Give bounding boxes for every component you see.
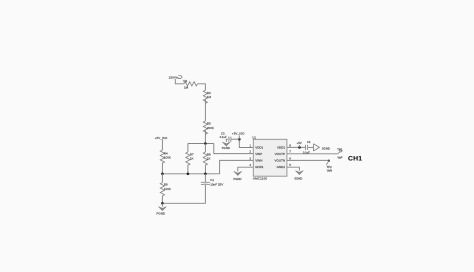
wire pin5 GND2 <box>287 167 300 170</box>
wire <box>175 79 184 84</box>
svg-text:PGND: PGND <box>156 212 166 216</box>
resistor R8 <box>203 144 211 174</box>
IC U1 AMC1100 <box>252 136 287 181</box>
svg-text:100K: 100K <box>164 156 171 160</box>
port 150Vin <box>169 76 182 80</box>
wire pin1 VDD1 <box>239 139 253 147</box>
svg-text:GND2: GND2 <box>277 165 286 169</box>
capacitor C3 <box>220 132 240 142</box>
svg-text:VINN: VINN <box>255 158 262 162</box>
wire <box>187 144 189 153</box>
wire pin8 VDD2 <box>287 146 305 148</box>
svg-text:C1: C1 <box>210 178 214 182</box>
power +5V_ISO (at U1) <box>232 132 245 140</box>
ground PGND (at C3) <box>222 142 231 150</box>
svg-text:1M: 1M <box>207 95 212 99</box>
svg-text:CH1: CH1 <box>348 156 362 163</box>
svg-text:VDD2: VDD2 <box>277 146 285 150</box>
wire <box>161 163 163 174</box>
resistor R3 <box>203 90 211 103</box>
svg-text:200K: 200K <box>207 126 214 130</box>
svg-text:PGND: PGND <box>233 177 241 181</box>
ground PGND (bottom left) <box>156 203 166 215</box>
wire pin6 VOUTN <box>287 159 329 161</box>
junction <box>238 138 241 141</box>
svg-text:SGND: SGND <box>322 147 330 151</box>
ground SGND (at C2, right-pointing) <box>314 144 330 151</box>
junction <box>161 202 164 205</box>
svg-text:R2: R2 <box>183 79 187 83</box>
test point TP2 <box>326 160 332 173</box>
wire pin4 GND1 <box>238 167 254 171</box>
wire <box>204 99 206 121</box>
svg-text:GND1: GND1 <box>255 165 264 169</box>
wire <box>197 84 205 90</box>
svg-text:+5V_ISO: +5V_ISO <box>232 132 245 136</box>
svg-text:150Vin: 150Vin <box>169 76 179 80</box>
junction <box>187 173 190 176</box>
node VINN bus <box>162 160 253 173</box>
svg-text:1K: 1K <box>190 157 194 161</box>
svg-text:VDD1: VDD1 <box>255 146 263 150</box>
svg-text:C2: C2 <box>307 140 311 144</box>
svg-text:VINP: VINP <box>255 152 262 156</box>
svg-text:TP1: TP1 <box>337 147 343 151</box>
ground SGND (pin 5) <box>294 171 303 181</box>
svg-text:VOUTP: VOUTP <box>275 152 285 156</box>
svg-text:1K: 1K <box>207 157 211 161</box>
svg-text:+5V_ISO: +5V_ISO <box>155 136 168 140</box>
resistor R6 <box>160 174 171 204</box>
svg-text:VaN: VaN <box>327 169 332 173</box>
ground PGND (pin 4) <box>233 171 241 181</box>
svg-text:U1: U1 <box>252 136 256 140</box>
svg-text:100K: 100K <box>164 187 171 191</box>
wire <box>214 144 254 154</box>
wire pin7 VOUTP <box>287 153 338 155</box>
svg-text:0.1uF: 0.1uF <box>220 135 227 139</box>
junction <box>298 146 301 149</box>
svg-text:10nF 25V: 10nF 25V <box>210 182 223 186</box>
junction <box>204 142 207 145</box>
capacitor C2 <box>303 140 314 154</box>
svg-text:PGND: PGND <box>222 146 230 150</box>
resistor R5 <box>203 121 214 134</box>
svg-text:VaP: VaP <box>337 155 342 159</box>
test point TP1 <box>337 147 343 159</box>
svg-text:AMC1100: AMC1100 <box>253 176 268 180</box>
capacitor C1 <box>162 174 223 204</box>
svg-text:1M: 1M <box>184 86 189 90</box>
power +5V <box>297 141 302 148</box>
svg-text:+5V: +5V <box>297 141 302 145</box>
junction <box>161 173 164 176</box>
junction <box>204 173 207 176</box>
svg-text:VOUTN: VOUTN <box>275 158 286 162</box>
resistor R7 <box>186 152 194 165</box>
svg-text:SGND: SGND <box>294 176 302 180</box>
power +5V_ISO (left) <box>155 136 168 150</box>
node VINP rail <box>188 143 214 145</box>
wire <box>204 130 206 143</box>
resistor R2 <box>183 79 197 90</box>
wire <box>187 165 189 174</box>
resistor R4 <box>160 150 171 163</box>
